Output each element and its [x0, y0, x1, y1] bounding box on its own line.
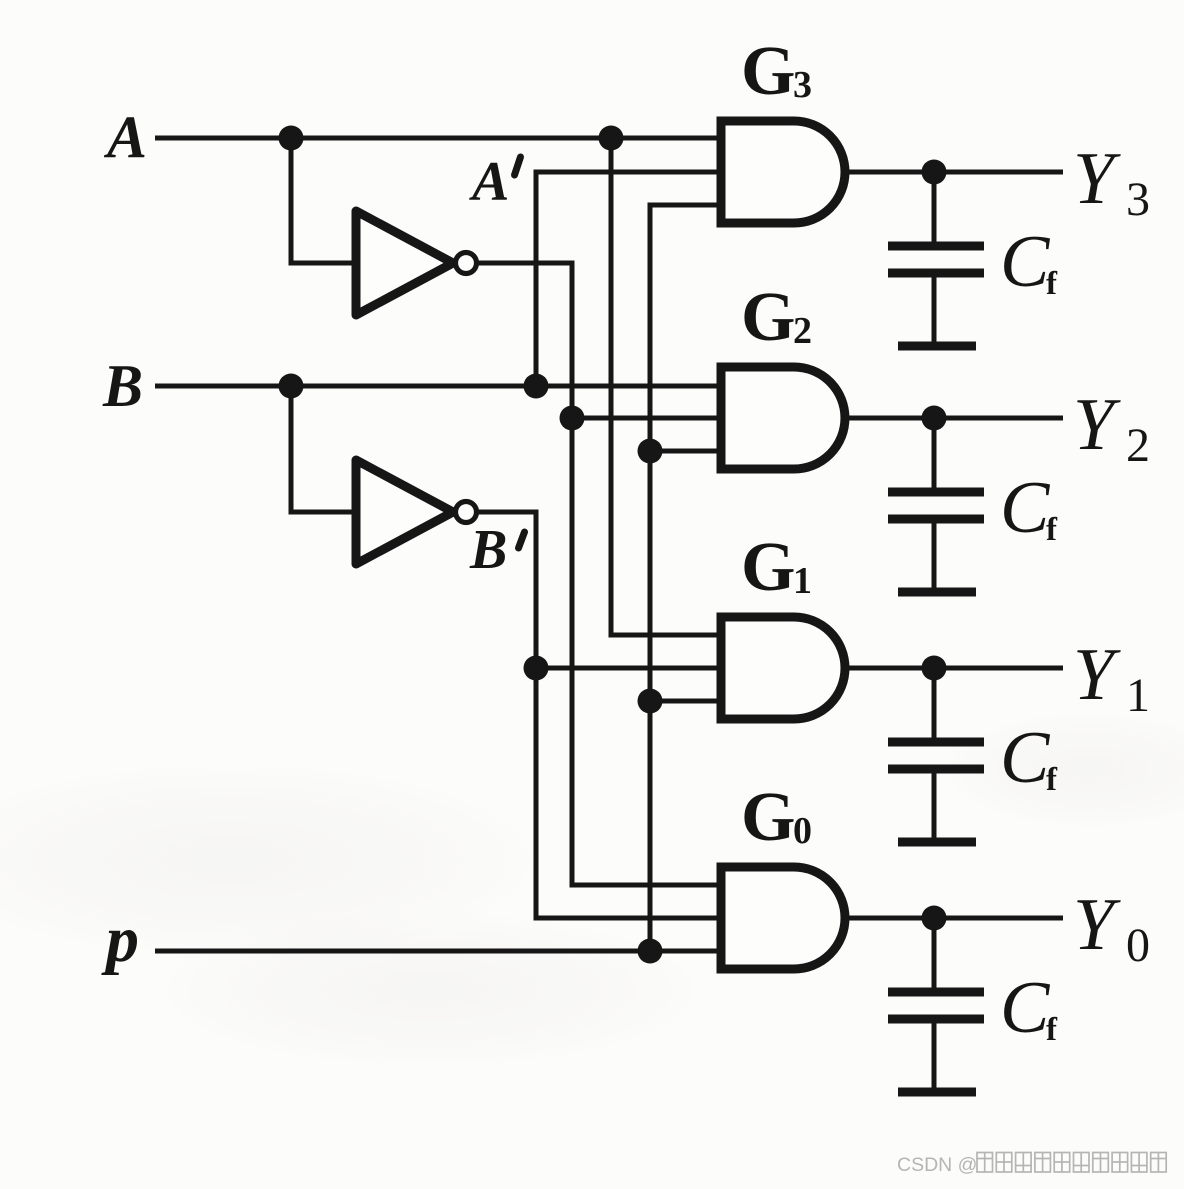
svg-text:A: A	[469, 151, 509, 213]
svg-text:f: f	[1046, 512, 1058, 548]
svg-text:C: C	[1000, 467, 1051, 549]
svg-text:G: G	[741, 529, 795, 606]
svg-text:2: 2	[793, 310, 812, 352]
svg-text:3: 3	[1126, 173, 1150, 226]
svg-text:1: 1	[1126, 669, 1150, 722]
svg-text:f: f	[1046, 762, 1058, 798]
svg-text:A: A	[103, 104, 147, 170]
svg-text:Y: Y	[1073, 138, 1121, 220]
svg-text:f: f	[1046, 266, 1058, 302]
svg-text:C: C	[1000, 967, 1051, 1049]
svg-text:Y: Y	[1073, 634, 1121, 716]
svg-text:0: 0	[1126, 919, 1150, 972]
svg-text:2: 2	[1126, 419, 1150, 472]
svg-text:G: G	[741, 33, 795, 110]
svg-text:G: G	[741, 779, 795, 856]
svg-text:B: B	[469, 519, 507, 581]
svg-text:CSDN @: CSDN @	[897, 1154, 977, 1176]
svg-text:f: f	[1046, 1012, 1058, 1048]
svg-text:p: p	[101, 903, 139, 976]
svg-text:C: C	[1000, 717, 1051, 799]
svg-text:3: 3	[793, 64, 812, 106]
svg-text:C: C	[1000, 221, 1051, 303]
svg-text:G: G	[741, 279, 795, 356]
svg-text:1: 1	[793, 560, 812, 602]
svg-text:0: 0	[793, 810, 812, 852]
svg-text:B: B	[102, 353, 143, 419]
svg-text:Y: Y	[1073, 884, 1121, 966]
svg-text:Y: Y	[1073, 384, 1121, 466]
